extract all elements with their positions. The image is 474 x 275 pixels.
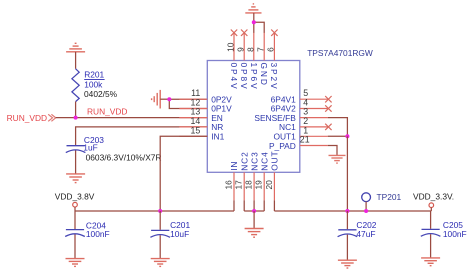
svg-text:IN: IN [229, 161, 239, 171]
wire IN1 (pin 15) to rail [160, 136, 207, 211]
no-connect X pin 10 [231, 30, 237, 36]
ground (below C205) [421, 258, 440, 266]
junction node NC bus [252, 209, 256, 213]
svg-text:18: 18 [244, 180, 254, 190]
wire pin 12 [169, 99, 207, 108]
wire port to rail [430, 208, 432, 212]
pin 2 stub [300, 126, 328, 128]
svg-text:9: 9 [236, 47, 246, 52]
svg-text:RUN_VDD: RUN_VDD [87, 106, 128, 116]
svg-text:TPS7A4701RGW: TPS7A4701RGW [307, 48, 373, 58]
ground (below C201) [151, 259, 170, 267]
wire R201 to junction [75, 102, 77, 118]
svg-text:17: 17 [234, 180, 244, 190]
capacitor C205 [430, 211, 432, 229]
wire VDD_3.3V rail [274, 210, 431, 212]
no-connect X pin 6 [271, 30, 277, 36]
wire VDD_3.8V rail [75, 210, 234, 212]
wire gnd to pin 7 (GND) [254, 22, 264, 33]
wire gnd to junction [160, 98, 169, 100]
wire pin 11 [169, 98, 207, 100]
ground (P_PAD) [329, 155, 346, 163]
svg-text:VDD_3.8V: VDD_3.8V [55, 192, 95, 202]
svg-text:NC4: NC4 [259, 151, 269, 170]
svg-text:VDD_3.3V.: VDD_3.3V. [413, 192, 454, 202]
svg-text:RUN_VDD: RUN_VDD [7, 113, 48, 123]
wire C202 to ground [346, 235, 348, 261]
svg-text:21: 21 [300, 135, 310, 145]
svg-text:15: 15 [191, 125, 201, 135]
svg-text:1P6V: 1P6V [249, 63, 259, 91]
ground (left of pins 11/12) [152, 90, 161, 109]
wire NC bus to ground [253, 211, 255, 229]
svg-text:3P2V: 3P2V [269, 63, 279, 91]
wire gnd to pin 8 (1P6V) [253, 13, 255, 33]
pin 16 stub [233, 172, 235, 200]
pin 10 stub [233, 33, 235, 61]
wire C205 to ground [430, 234, 432, 258]
junction node pins 11/12 ground [167, 97, 171, 101]
ground (NC pins) [245, 229, 264, 238]
svg-text:100nF: 100nF [86, 229, 110, 239]
junction node OUT1 [345, 134, 349, 138]
junction node C202 [345, 209, 349, 213]
svg-text:8: 8 [245, 47, 255, 52]
pin 14 stub [179, 126, 207, 128]
wire NR (pin 14) to C203 [76, 127, 208, 145]
pin 4 stub [300, 108, 328, 110]
wire RUN_VDD to EN (pin 13) [56, 117, 208, 119]
test point TP201 [362, 193, 371, 202]
wire C204 to ground [74, 234, 76, 258]
junction node top ground [252, 20, 256, 24]
pin 13 stub [179, 117, 207, 119]
svg-text:TP201: TP201 [377, 192, 402, 202]
capacitor C201 [159, 211, 161, 230]
wire port to rail [74, 207, 76, 211]
no-connect X pin 5 [325, 96, 331, 102]
svg-text:0402/5%: 0402/5% [84, 89, 118, 99]
junction node TP201 [364, 209, 368, 213]
ground (below C203) [66, 174, 85, 183]
svg-text:0P4V: 0P4V [229, 63, 239, 91]
svg-text:7: 7 [256, 47, 266, 52]
svg-text:19: 19 [254, 180, 264, 190]
pin 18 stub [253, 172, 255, 200]
svg-text:10uF: 10uF [170, 229, 189, 239]
capacitor C203 [66, 146, 86, 153]
svg-text:20: 20 [264, 180, 274, 190]
ground (top of R201) [66, 43, 85, 52]
pin 1 stub [300, 135, 328, 137]
wire C201 to ground [159, 235, 161, 258]
pin 5 stub [300, 98, 328, 100]
pin 9 stub [243, 33, 245, 61]
wire C203 to ground [75, 151, 77, 174]
svg-text:100nF: 100nF [443, 229, 467, 239]
svg-text:0P8V: 0P8V [239, 63, 249, 91]
wire pin 16 (IN) to rail [233, 200, 235, 211]
pin 8 stub [253, 33, 255, 61]
wire TP201 to rail [365, 202, 367, 211]
pin 6 stub [273, 33, 275, 61]
junction node C201/IN1 [158, 209, 162, 213]
pin 3 stub [300, 117, 328, 119]
wire gnd to R201 [75, 52, 77, 69]
svg-text:0603/6.3V/10%/X7R: 0603/6.3V/10%/X7R [86, 153, 162, 163]
pin 21 stub [300, 145, 328, 147]
pin 12 stub [179, 108, 207, 110]
pin 15 stub [179, 135, 207, 137]
wire SENSE/FB (pin 3) [328, 118, 348, 137]
svg-text:47uF: 47uF [356, 229, 375, 239]
svg-text:NC3: NC3 [249, 151, 259, 170]
pin 11 stub [179, 98, 207, 100]
capacitor C202 [346, 211, 348, 229]
ground (below C204) [66, 259, 85, 267]
ground (top of IC) [245, 4, 261, 13]
svg-text:P_PAD: P_PAD [269, 141, 296, 151]
svg-text:OUT: OUT [270, 150, 280, 170]
pin 7 stub [263, 33, 265, 61]
no-connect X pin 4 [325, 105, 331, 111]
pin 20 stub [273, 172, 275, 200]
svg-text:6: 6 [266, 47, 276, 52]
wire OUT1 (pin 1) [328, 135, 348, 137]
resistor R201 [72, 69, 79, 102]
svg-text:NC2: NC2 [239, 151, 249, 170]
svg-text:R201: R201 [84, 70, 104, 80]
pin 17 stub [243, 172, 245, 200]
no-connect X pin 9 [241, 30, 247, 36]
junction node RUN_VDD [74, 116, 78, 120]
wire OUT1 to rail [346, 136, 348, 211]
svg-text:1uF: 1uF [83, 143, 97, 153]
svg-text:IN1: IN1 [211, 132, 224, 142]
ground (below C202) [338, 260, 357, 268]
wire pin 20 (OUT) to rail [273, 200, 275, 211]
svg-text:GND: GND [259, 63, 269, 87]
wire P_PAD to ground [328, 146, 337, 156]
pin 19 stub [263, 172, 265, 200]
IC U1 TPS7A4701RGW body [207, 61, 299, 173]
no-connect X pin 2 [325, 124, 331, 130]
wire NC bus (pins 17-19) [244, 200, 264, 211]
svg-text:10: 10 [225, 42, 235, 52]
svg-text:16: 16 [223, 180, 233, 190]
capacitor C204 [74, 211, 76, 229]
